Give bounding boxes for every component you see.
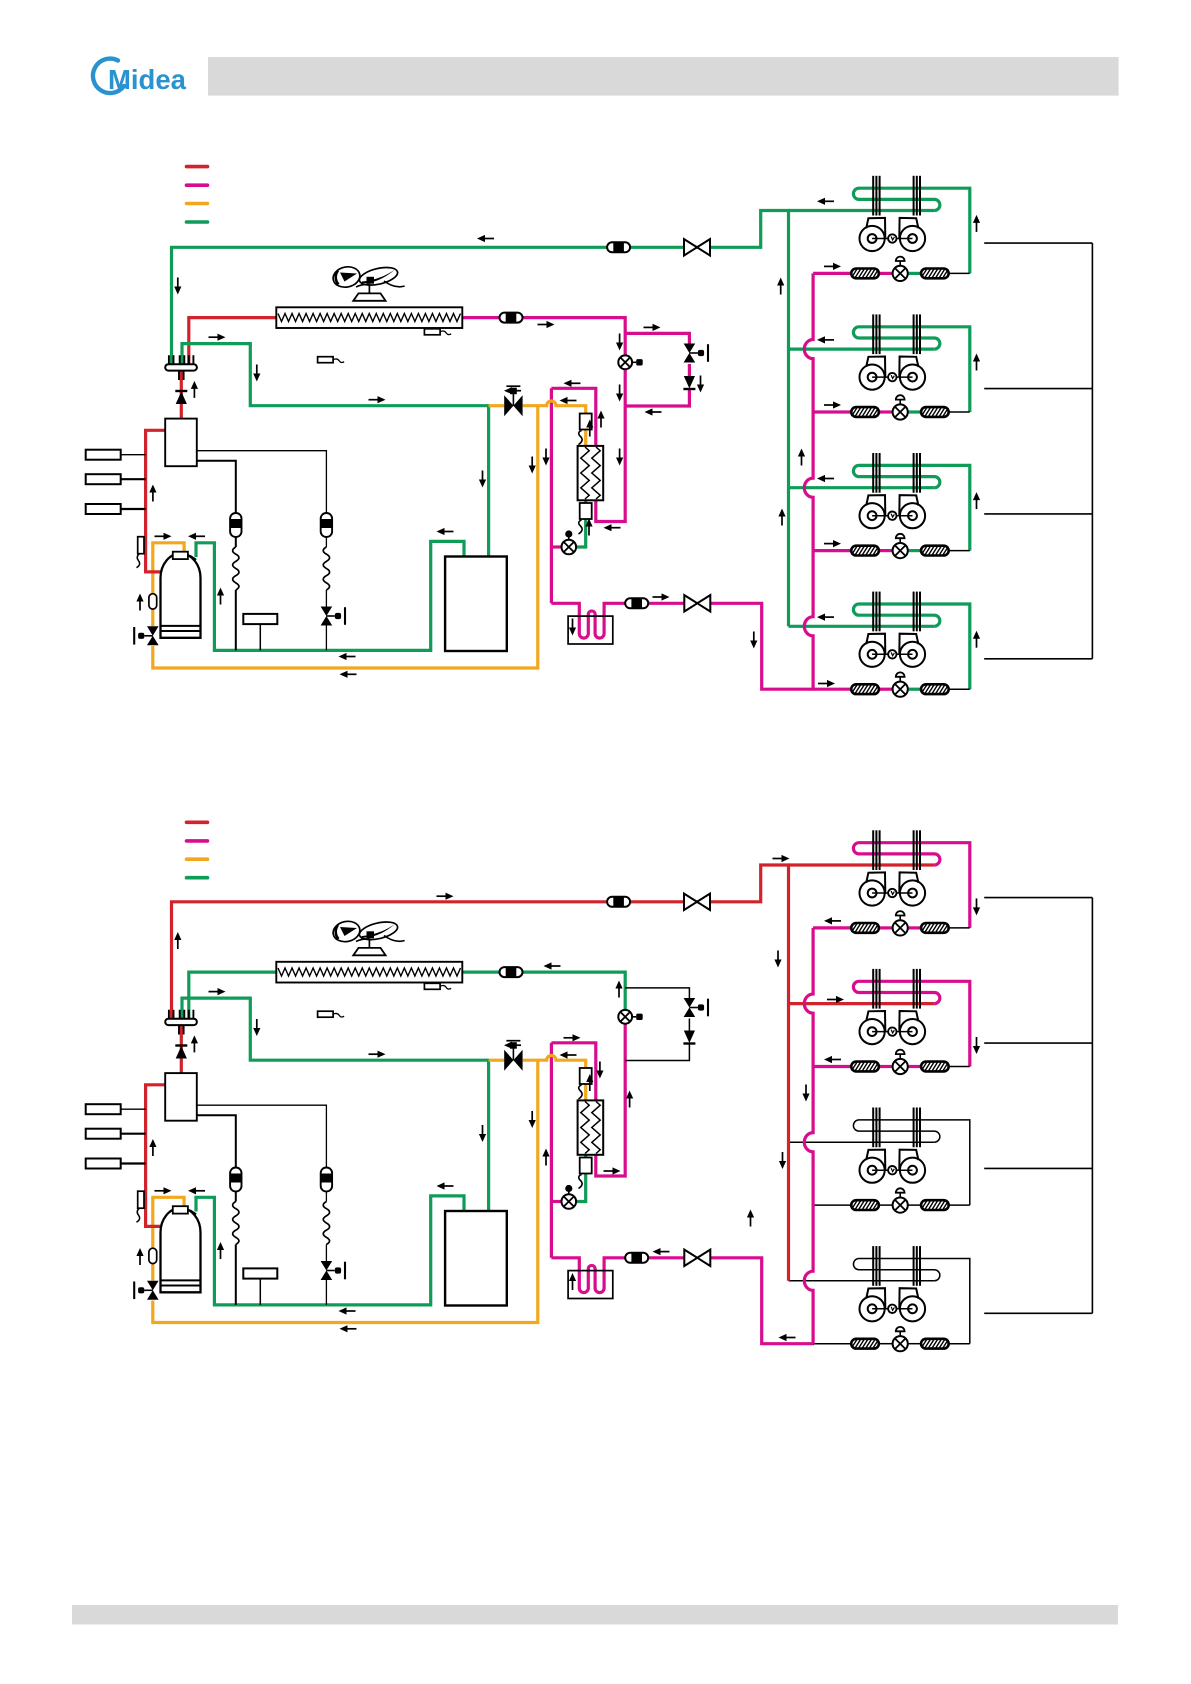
gas line stop valve <box>684 239 697 255</box>
bypass branch with check valve and EEV <box>625 333 689 406</box>
wire: suction drop into accumulator <box>487 406 490 557</box>
wire: liquid line to indoor units <box>710 1258 814 1344</box>
indoor unit 2 EEV <box>893 404 908 419</box>
wire: EEV to liquid header <box>551 1200 561 1203</box>
indoor unit 3 supply line <box>789 486 935 489</box>
indoor unit 1 EEV <box>893 266 908 281</box>
ambient temp sensor <box>318 357 334 363</box>
wire: suction drop into accumulator <box>487 1060 490 1211</box>
indoor unit 2 EEV row <box>813 410 851 413</box>
indoor unit enclosures <box>984 243 1092 659</box>
bypass EEV <box>684 998 696 1008</box>
indoor unit 2 filter A <box>851 407 879 417</box>
liquid collector with jumps <box>804 928 813 1344</box>
indoor unit 2 filter B <box>921 407 949 417</box>
oil return capillary 1 <box>197 1115 236 1305</box>
liquid line coil box <box>568 616 613 644</box>
indoor unit 4 filter B <box>921 1339 949 1349</box>
indoor unit 1 coil <box>853 843 969 928</box>
wire: EEV to liquid header <box>551 545 561 548</box>
3-way injection valve <box>504 1050 513 1071</box>
indoor unit 1 filter A <box>851 923 879 933</box>
indoor unit 4 coil fins <box>872 1246 874 1286</box>
cooling legend <box>187 165 208 169</box>
coil line sight glass <box>500 967 523 977</box>
outdoor coil <box>276 962 462 983</box>
indoor unit 4 filter B <box>921 684 949 694</box>
indoor unit 1 filter B <box>921 923 949 933</box>
indoor unit 3 EEV <box>893 1198 908 1213</box>
flow arrows outdoor <box>437 895 447 897</box>
indoor unit 2 coil <box>853 981 969 1066</box>
check valve discharge <box>175 1044 187 1046</box>
bypass branch with check valve and EEV <box>625 988 689 1061</box>
wire: oil separator to 4-way valve <box>180 1026 183 1074</box>
pressure switches <box>86 450 121 460</box>
oil return capillary 1 <box>197 461 236 651</box>
svg-text:Midea: Midea <box>108 64 187 95</box>
wire: suction/injection line into 3-way valve <box>489 1059 505 1062</box>
indoor unit 2 coil <box>853 327 969 412</box>
header gray bar <box>208 57 1119 96</box>
indoor unit 2 coil fins <box>872 969 874 1009</box>
indoor unit 3 EEV row <box>813 1204 851 1206</box>
indoor unit 1 filter A <box>851 269 879 279</box>
3-way injection valve <box>504 395 513 416</box>
indoor unit 4 supply line <box>789 1280 935 1282</box>
bypass EEV <box>684 344 696 354</box>
wire: liquid header vertical <box>550 1043 553 1258</box>
indoor unit 1 supply line <box>789 209 935 212</box>
wire: liquid line with coil loops <box>551 1258 684 1293</box>
wire: suction/injection line into 3-way valve <box>489 404 505 407</box>
wire: line below outdoor EEV to subcooler <box>596 1023 625 1176</box>
flow arrows indoor <box>832 920 842 922</box>
indoor unit 1 coil <box>853 188 969 273</box>
wire: 4-way valve port to accumulator line <box>182 344 490 406</box>
strainer bottom <box>580 503 592 519</box>
indoor unit 3 EEV <box>893 543 908 558</box>
indoor unit 1 EEV row <box>813 272 851 275</box>
liquid line stop valve <box>684 1250 697 1266</box>
indoor unit 3 fans <box>860 495 886 528</box>
wire: injection line with jump over liquid header <box>523 1056 586 1070</box>
pressure switches <box>86 1104 121 1114</box>
liquid line coil box <box>568 1271 613 1299</box>
oil check valve capsule <box>149 594 157 609</box>
indoor unit 4 supply line <box>789 625 935 628</box>
liquid collector with jumps <box>804 273 813 689</box>
indoor unit 2 filter B <box>921 1062 949 1072</box>
wire: liquid line to indoor units <box>710 603 814 689</box>
indoor unit 4 filter A <box>851 1339 879 1349</box>
compressor <box>161 554 201 638</box>
wire: liquid line with coil loops <box>551 603 684 638</box>
wire: accumulator outlet to compressor suction <box>196 1196 464 1305</box>
wire: 4-way valve port to accumulator line <box>182 998 490 1060</box>
indoor unit 4 coil <box>853 1259 969 1344</box>
bypass check valve <box>684 1031 695 1044</box>
Midea logo <box>93 59 187 95</box>
indoor unit 2 fans <box>860 357 886 390</box>
wire: main gas line to indoor units <box>172 211 791 364</box>
indoor unit 1 fans <box>860 218 886 251</box>
wire: subcooler bottom to injection EEV <box>577 501 586 547</box>
wire: outdoor coil left connection <box>189 318 277 364</box>
wire: main gas line to indoor units <box>172 865 791 1018</box>
accumulator <box>445 557 507 652</box>
wire: outdoor coil left connection <box>189 972 277 1018</box>
indoor unit 3 coil fins <box>872 1108 874 1148</box>
liquid line sight glass <box>625 598 648 608</box>
bypass check valve <box>684 376 695 389</box>
outdoor fan <box>331 919 404 948</box>
wire: compressor discharge to oil separator <box>146 1085 166 1227</box>
indoor unit 1 EEV row <box>813 926 851 929</box>
gas line sight glass <box>607 242 630 252</box>
indoor unit 4 coil fins <box>872 592 874 632</box>
wire: strainer to subcooler top <box>584 1083 587 1101</box>
indoor unit 2 EEV <box>893 1059 908 1074</box>
main gas distribution vertical <box>787 865 790 1281</box>
wire: compressor discharge to oil separator <box>146 430 166 572</box>
outdoor coil <box>276 307 462 328</box>
gas line stop valve <box>684 894 697 910</box>
oil solenoid valve <box>321 607 333 617</box>
wire: liquid header vertical <box>550 388 553 603</box>
wire: oil separator to 4-way valve <box>180 371 183 419</box>
indoor unit 4 EEV row <box>813 1343 851 1345</box>
injection EEV <box>562 1194 577 1209</box>
outdoor fan <box>331 264 404 293</box>
four-way valve <box>165 364 197 370</box>
indoor unit 2 coil fins <box>872 314 874 354</box>
indoor unit 3 supply line <box>789 1141 935 1143</box>
liquid line sight glass <box>625 1253 648 1263</box>
heating legend <box>187 820 208 824</box>
plate heat exchanger <box>578 1100 604 1154</box>
indoor unit 3 coil <box>853 465 969 550</box>
flow arrows outdoor <box>485 238 495 240</box>
indoor unit 1 supply line <box>789 863 935 866</box>
outdoor coil temp sensor <box>424 983 440 989</box>
indoor unit 4 EEV row <box>813 688 851 691</box>
compressor <box>161 1208 201 1292</box>
indoor unit 3 fans <box>860 1150 886 1183</box>
indoor unit 4 fans <box>860 634 886 667</box>
indoor unit 4 fans <box>860 1288 886 1321</box>
oil separator <box>165 1073 197 1121</box>
discharge temp sensor <box>138 1191 144 1208</box>
low pressure sensor <box>243 1268 277 1278</box>
wire: injection branch down to compressor <box>153 406 538 668</box>
strainer bottom <box>580 1158 592 1174</box>
ambient temp sensor <box>318 1011 334 1017</box>
wire: outdoor coil right line <box>462 318 626 356</box>
indoor unit 4 coil <box>853 604 969 689</box>
wire: accumulator outlet to compressor suction <box>196 541 464 650</box>
liquid line stop valve <box>684 595 697 611</box>
indoor unit 1 filter B <box>921 269 949 279</box>
accumulator <box>445 1211 507 1306</box>
indoor unit 3 EEV row <box>813 549 851 552</box>
indoor unit 3 filter B <box>921 1200 949 1210</box>
wire: strainer to subcooler top <box>584 429 587 447</box>
outdoor EEV solenoid <box>618 355 632 369</box>
outdoor coil temp sensor <box>424 329 440 335</box>
indoor unit 2 supply line <box>789 348 935 351</box>
gas line sight glass <box>607 897 630 907</box>
wire: subcooler bottom to injection EEV <box>577 1156 586 1202</box>
indoor unit 2 supply line <box>789 1002 935 1005</box>
indoor unit 1 EEV <box>893 920 908 935</box>
check valve discharge <box>175 390 187 392</box>
indoor unit enclosures <box>984 898 1092 1314</box>
indoor unit 2 filter A <box>851 1062 879 1072</box>
coil line sight glass <box>500 313 523 323</box>
strainer top <box>580 414 592 430</box>
indoor unit 1 coil fins <box>872 176 874 216</box>
footer gray bar <box>72 1605 1118 1625</box>
main gas distribution vertical <box>787 211 790 627</box>
injection service valve <box>147 1281 159 1291</box>
indoor unit 3 filter A <box>851 1200 879 1210</box>
low pressure sensor <box>243 614 277 624</box>
indoor unit 2 fans <box>860 1011 886 1044</box>
injection EEV <box>562 540 577 555</box>
strainer top <box>580 1068 592 1084</box>
oil separator <box>165 419 197 467</box>
wire: injection branch down to compressor <box>153 1060 538 1322</box>
outdoor EEV solenoid <box>618 1010 632 1024</box>
oil check valve capsule <box>149 1248 157 1263</box>
injection service valve <box>147 626 159 636</box>
wire: injection line with jump over liquid header <box>523 401 586 414</box>
oil return capillary 2 <box>197 1105 327 1305</box>
indoor unit 3 filter A <box>851 546 879 556</box>
discharge temp sensor <box>138 537 144 554</box>
indoor unit 4 EEV <box>893 1336 908 1351</box>
wire: subcooler right circuit to liquid header <box>551 1043 595 1101</box>
indoor unit 1 coil fins <box>872 830 874 870</box>
four-way valve <box>165 1019 197 1025</box>
plate heat exchanger <box>578 446 604 500</box>
indoor unit 1 fans <box>860 872 886 905</box>
wire: line below outdoor EEV to subcooler <box>596 369 625 522</box>
wire: outdoor coil right line <box>462 972 626 1010</box>
indoor unit 3 coil <box>853 1120 969 1205</box>
oil solenoid valve <box>321 1261 333 1271</box>
indoor unit 4 filter A <box>851 684 879 694</box>
oil return capillary 2 <box>197 451 327 651</box>
indoor unit 2 EEV row <box>813 1065 851 1068</box>
indoor unit 3 filter B <box>921 546 949 556</box>
flow arrows indoor <box>824 265 834 267</box>
indoor unit 4 EEV <box>893 682 908 697</box>
wire: subcooler right circuit to liquid header <box>551 388 595 446</box>
indoor unit 3 coil fins <box>872 453 874 493</box>
